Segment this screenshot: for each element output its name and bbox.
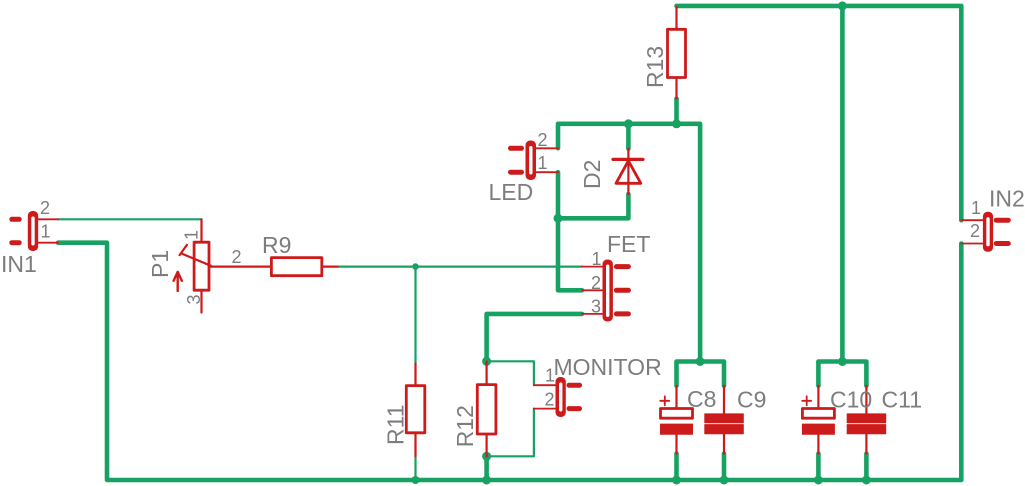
- junction bus C10: [814, 476, 823, 485]
- svg-text:2: 2: [545, 390, 555, 410]
- capacitor C10 (polarized): [802, 386, 834, 454]
- svg-text:3: 3: [591, 296, 601, 316]
- junction bus R11: [412, 476, 420, 484]
- wire C8-C9 top tee (thick): [677, 362, 725, 386]
- wire top rail to IN2 pin1 (thick): [677, 6, 962, 220]
- svg-text:FET: FET: [607, 231, 650, 257]
- connector MONITOR: [534, 377, 580, 417]
- wire C8 bottom stub (thick): [674, 454, 679, 480]
- capacitor C8 (polarized): [660, 386, 692, 454]
- wire R12 bottom to MONITOR pin2 (thin): [487, 409, 534, 457]
- svg-text:1: 1: [41, 222, 51, 242]
- svg-text:1: 1: [592, 249, 602, 269]
- junction R13 bottom: [672, 119, 681, 128]
- potentiometer P1: [174, 219, 211, 312]
- svg-text:1: 1: [182, 230, 202, 240]
- wire FET pin3 to R12 top (thick): [487, 314, 582, 361]
- svg-text:R11: R11: [383, 405, 409, 446]
- wire C10-C11 top tee (thick): [818, 362, 866, 386]
- svg-text:1: 1: [971, 198, 981, 218]
- svg-text:1: 1: [538, 153, 548, 173]
- wire IN1 pin2 to P1 pin1 (thin): [58, 218, 202, 220]
- svg-text:R9: R9: [262, 232, 291, 258]
- wire R11 bottom stub (thin): [414, 455, 416, 480]
- wire C9 bottom stub (thick): [722, 454, 727, 480]
- svg-text:C11: C11: [882, 387, 923, 413]
- junction C10-C11 top: [838, 357, 847, 366]
- svg-text:R12: R12: [452, 405, 478, 447]
- junction bus C11: [862, 476, 871, 485]
- junction bus C9: [720, 476, 729, 485]
- svg-text:MONITOR: MONITOR: [554, 354, 662, 380]
- connector FET: [582, 260, 628, 322]
- resistor R9: [211, 258, 338, 276]
- svg-text:P1: P1: [147, 250, 173, 278]
- svg-text:IN2: IN2: [989, 186, 1025, 212]
- svg-text:2: 2: [970, 221, 980, 241]
- svg-text:C10: C10: [830, 387, 872, 413]
- wire top rail drop to C10/C11 (thick): [840, 6, 845, 362]
- wire node to FET pin2 (thick): [558, 218, 582, 290]
- svg-text:1: 1: [545, 366, 555, 386]
- svg-text:C8: C8: [687, 386, 716, 412]
- wire R9 to FET pin1 (thin): [338, 266, 582, 268]
- wire R12 bottom to bus (thick): [484, 456, 489, 480]
- junction bus C8: [672, 476, 681, 485]
- svg-text:2: 2: [232, 247, 242, 267]
- resistor R13: [668, 7, 686, 99]
- diode D2: [613, 149, 643, 194]
- wire R12 top to MONITOR pin1 (thin): [487, 361, 534, 385]
- wire C11 bottom stub (thick): [864, 454, 869, 480]
- resistor R11: [406, 364, 425, 457]
- junction C8-C9 top: [696, 357, 705, 366]
- wire IN1 pin1 to ground bus to IN2 pin2 (thick): [58, 243, 961, 480]
- wire C10 bottom stub (thick): [816, 454, 821, 480]
- connector IN1: [12, 211, 58, 251]
- junction R9 / R11 node: [412, 263, 419, 270]
- svg-text:R13: R13: [642, 46, 668, 88]
- wire R13 bottom stub (thick): [674, 99, 679, 124]
- svg-text:D2: D2: [579, 160, 605, 189]
- svg-text:3: 3: [184, 294, 204, 304]
- svg-text:LED: LED: [489, 179, 534, 205]
- junction D2 top: [624, 119, 633, 128]
- junction R12 top: [482, 357, 491, 366]
- capacitor C11: [847, 386, 886, 454]
- junction R12 bottom: [482, 452, 491, 461]
- svg-text:C9: C9: [737, 387, 766, 413]
- svg-text:2: 2: [591, 273, 601, 293]
- wire node to R11 top (thin): [414, 267, 416, 364]
- junction bus R12: [482, 476, 491, 485]
- svg-text:2: 2: [40, 198, 50, 218]
- junction top rail / C10 drop: [838, 1, 847, 10]
- connector IN2: [961, 212, 1008, 252]
- capacitor C9: [705, 386, 744, 454]
- wire LED pin1 to D2 anode (thick): [558, 172, 628, 218]
- wire D2 cathode stub (thick): [626, 124, 631, 149]
- svg-text:IN1: IN1: [1, 251, 37, 277]
- wire LED pin2 / mid rail / drop to C8-C9 (thick): [558, 124, 700, 362]
- svg-text:2: 2: [538, 130, 548, 150]
- connector LED: [511, 141, 559, 181]
- junction LED pin1 / D2 anode node: [554, 214, 563, 223]
- resistor R12: [477, 362, 496, 457]
